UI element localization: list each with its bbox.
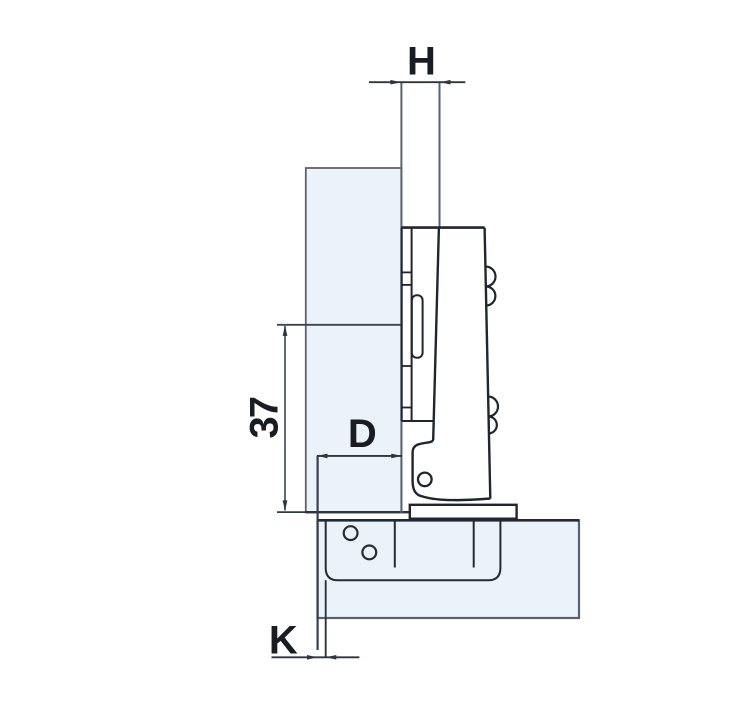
pocket interior line 1 [394,521,396,568]
screw bump arc 4 [488,416,497,433]
H arrow left [390,80,400,85]
D arrow left [317,454,327,459]
hinge arm front slant, lower curl and bottom edge [413,228,491,501]
svg-text:K: K [269,619,298,663]
svg-text:37: 37 [242,397,286,438]
D arrow right [391,454,401,459]
H arrow right [440,80,450,85]
K arrow left [307,655,317,660]
cabinet bottom panel (horizontal, light blue) [318,520,580,618]
flange tick 1 [402,271,412,273]
door panel bottom edge (darker) [277,511,410,513]
hinge cup flange left edge (on door face) [401,228,403,421]
bottom panel front edge (dark) [317,456,319,650]
37 arrow down [283,500,288,510]
dimension K line [272,656,360,658]
pocket front extension line down to K dimension [325,580,327,658]
svg-text:H: H [407,40,436,84]
hinge plate pocket outline in bottom panel [326,521,501,581]
cabinet door panel (vertical, light blue) [306,168,402,512]
bottom panel top edge (dark) [317,519,579,522]
screw bump arc 1 [485,266,495,286]
dimension 37 vertical line [284,326,286,511]
pocket interior line 2 [473,521,475,568]
hinge cup flange vertical line [411,228,413,421]
dimension 37 top reference line [277,324,401,326]
hinge body right edge [485,228,491,499]
dimension H line [369,81,465,83]
hinge pivot circle [418,473,432,487]
hinge cup boss (rounded rect) [412,295,423,358]
37 arrow up [283,326,288,336]
hinge top edge [401,226,484,229]
flange tick 4 [402,407,412,409]
flange tick 3 [402,365,412,367]
screw bump arc 3 [488,396,498,416]
hinge mounting plate [410,505,517,519]
svg-text:D: D [348,412,377,456]
flange bottom line [402,420,434,422]
pocket screw hole 2 [362,546,376,560]
screw bump arc 2 [486,286,496,305]
door face lines (door thickness H) [400,82,402,513]
dimension D line [317,455,402,457]
K arrow right [326,655,336,660]
pocket screw hole 1 [344,526,358,540]
flange tick 2 [402,284,412,286]
